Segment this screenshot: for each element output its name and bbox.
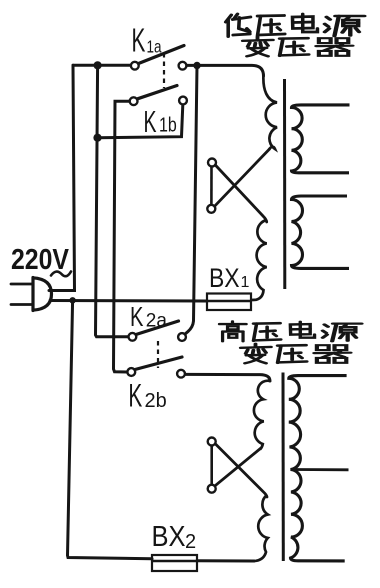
wire rail4 (K1a contact node down to K2a contact): [185, 66, 197, 335]
svg-text:2a: 2a: [146, 311, 168, 332]
T1 tap diagonal upper-to-lowercircle: [215, 149, 270, 206]
svg-text:K: K: [130, 302, 143, 333]
switch K2a contact circle: [178, 333, 186, 341]
switch K1a contact circle: [179, 62, 187, 70]
switch K2b pivot circle: [127, 368, 135, 376]
label high-voltage transformer line1: 高压电源: [219, 321, 361, 341]
svg-text:1a: 1a: [147, 38, 162, 57]
dashed link K2: [157, 341, 159, 368]
plug P1 top lead: [49, 289, 75, 292]
switch K1b arm: [138, 86, 178, 99]
svg-text:K: K: [132, 22, 146, 59]
switch K1b pivot circle: [130, 97, 138, 105]
wire K1b pivot to K2b pivot (rail3): [114, 101, 130, 372]
wire left rail lower (plug bottom down to BX2): [68, 300, 153, 559]
plug P1 body: [33, 278, 52, 311]
svg-text:1: 1: [241, 274, 250, 291]
wire BX2 to T2 primary bottom: [197, 559, 254, 562]
switch K2a arm: [136, 321, 179, 335]
label BX2: [152, 519, 197, 553]
T1 tap circle lower: [207, 205, 215, 213]
svg-text:1b: 1b: [159, 114, 177, 136]
svg-text:BX: BX: [209, 263, 240, 293]
T2 secondary center tap lead: [295, 468, 349, 471]
T2 tap circle upper: [208, 438, 216, 446]
junction dot plug bottom / left rail: [69, 297, 75, 303]
plug P1 prongs: [11, 284, 33, 305]
switch K1a pivot circle: [131, 62, 139, 70]
label K1a: [132, 22, 162, 59]
svg-text:2b: 2b: [145, 390, 167, 412]
T2 tap diagonal upper-to-lowercircle: [215, 448, 261, 486]
transformer T2 primary winding upper section: [254, 381, 270, 450]
svg-text:K: K: [128, 378, 142, 414]
T2 tap circle lower: [208, 485, 216, 493]
svg-text:K: K: [144, 106, 157, 140]
switch K2b contact circle: [177, 370, 185, 378]
junction dot top wire / rail4: [193, 62, 200, 69]
dashed link K1: [163, 53, 165, 88]
svg-text:2: 2: [185, 531, 196, 553]
wire left rail upper (plug top to top wire): [49, 65, 75, 290]
wire rail2 (line A down to K2a pivot): [96, 65, 129, 337]
label high-voltage transformer line2: 变压器: [241, 344, 351, 363]
label K1b: [144, 106, 177, 140]
T1 tap link bar: [210, 167, 213, 205]
junction dot K1b wire / rail2: [93, 134, 101, 142]
fuse BX2 box: [152, 555, 197, 571]
AC tilde symbol: [51, 272, 71, 277]
label low-voltage transformer line2: 变压器: [243, 37, 353, 56]
T1 tap diagonal uppercircle-to-lower: [215, 165, 266, 222]
wire top horizontal (line A to K1a): [73, 64, 131, 67]
switch K1b contact circle: [179, 97, 187, 105]
fuse BX2 wire through: [152, 560, 197, 563]
svg-text:BX: BX: [152, 519, 186, 552]
fuse BX1 wire through: [207, 300, 251, 303]
switch K2a pivot circle: [129, 333, 137, 341]
junction dot top wire / rail2: [94, 61, 102, 69]
transformer T2 primary winding lower section: [254, 495, 268, 561]
T2 tap diagonal uppercircle-to-lower: [216, 444, 268, 497]
transformer T1 primary winding lower section: [251, 220, 267, 300]
T2 tap link bar: [210, 446, 213, 485]
transformer T1 primary winding upper section: [263, 74, 277, 150]
svg-text:220V: 220V: [11, 244, 69, 276]
transformer T2 secondary winding with center tap: [289, 376, 347, 561]
transformer T2 core: [282, 373, 285, 562]
T1 tap circle upper: [208, 159, 216, 167]
wire K1a contact to T1 primary top: [187, 65, 264, 76]
switch K1a arm: [139, 46, 185, 64]
transformer T1 secondary winding 1: [292, 105, 350, 173]
label low-voltage transformer line1: 低压电源: [226, 14, 365, 37]
fuse BX1 box: [207, 294, 251, 311]
label K2a: [130, 302, 167, 333]
wire K1b contact to rail2 junction: [98, 105, 183, 138]
switch K2b arm: [135, 357, 182, 370]
transformer T1 secondary winding 2: [292, 196, 350, 268]
transformer T1 core: [283, 79, 286, 289]
label K2b: [128, 378, 166, 414]
wire K2b contact to T2 primary top: [185, 374, 270, 381]
wire plug bottom to BX1: [50, 299, 207, 303]
label BX1: [209, 263, 250, 293]
